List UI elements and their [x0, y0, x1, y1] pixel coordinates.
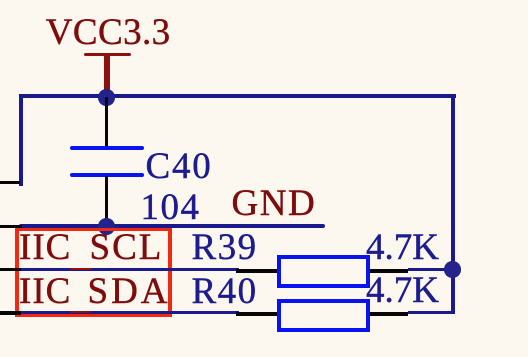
net label IIC_SDA — [19, 273, 71, 310]
capacitor C40 top plate — [70, 146, 143, 150]
wire IIC_SCL row (right blue) — [408, 268, 451, 272]
capacitor C40 bottom lead (black) — [105, 176, 108, 225]
power bar VCC3.3 — [84, 53, 131, 57]
value 4.7K (R39) — [366, 229, 439, 266]
capacitor C40 top lead (black) — [105, 97, 108, 147]
wire right vertical — [451, 94, 456, 314]
capacitor C40 bottom plate — [70, 173, 143, 177]
value 104 — [141, 189, 201, 226]
GND net label — [232, 185, 317, 222]
junction node pullup R39 to VCC vertical — [444, 261, 461, 278]
pin stub IIC_SCL (black) — [0, 268, 21, 271]
resistor R39 body — [277, 255, 370, 288]
highlight box around IIC labels — [15, 228, 172, 231]
resistor R40 lead (black) — [236, 312, 408, 316]
value 4.7K (R40) — [366, 272, 439, 309]
wire IIC_SDA row (right blue) — [408, 311, 455, 315]
designator C40 — [146, 148, 213, 185]
resistor R39 lead (black) — [236, 269, 408, 273]
wire left vertical — [19, 94, 23, 186]
wire IIC_SDA row (left blue) — [19, 311, 239, 315]
underscore of IIC_SDA — [70, 311, 91, 313]
power net VCC3.3 label — [46, 14, 171, 51]
resistor R40 body — [277, 299, 370, 332]
pin stub left (black) at VCC branch — [0, 181, 20, 184]
wire IIC_SCL row (left blue) — [19, 268, 239, 272]
wire GND row horizontal — [19, 224, 325, 228]
net label IIC_SCL — [19, 229, 71, 266]
junction node on VCC bus — [98, 89, 115, 106]
wire top horizontal VCC bus — [19, 94, 456, 98]
underscore of IIC_SCL — [70, 268, 91, 270]
designator R39 — [192, 229, 258, 266]
pin stub GND row (black) — [0, 225, 22, 228]
designator R40 — [192, 273, 258, 310]
power stem VCC3.3 — [104, 55, 109, 92]
pin stub IIC_SDA (black) — [0, 311, 21, 314]
junction node capacitor to GND wire — [98, 218, 115, 235]
